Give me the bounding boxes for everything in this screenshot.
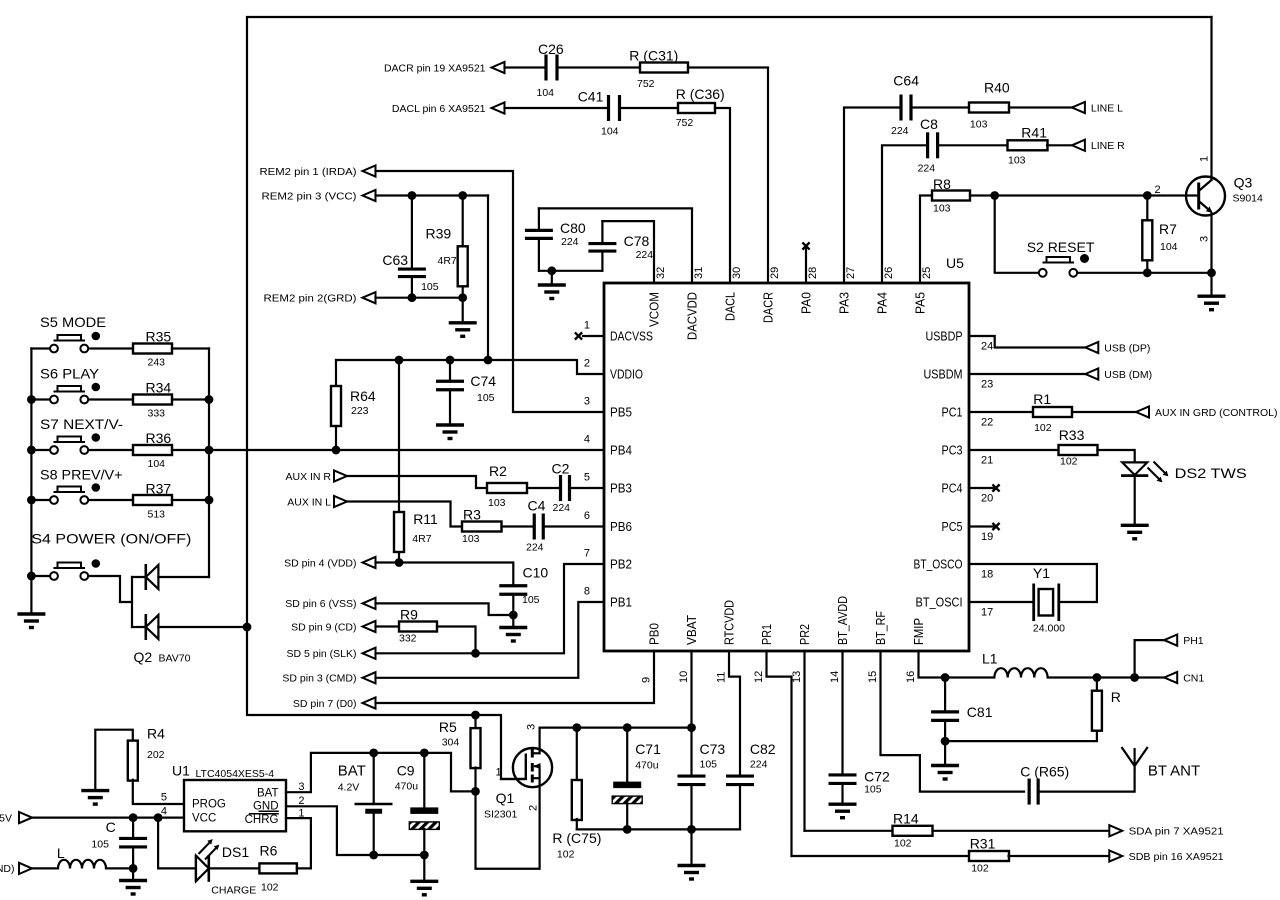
wire: C10 bottom lead [512, 595, 514, 628]
svg-text:S4 POWER (ON/OFF): S4 POWER (ON/OFF) [31, 531, 191, 547]
wire: C74 lower lead [449, 390, 451, 425]
wire: C81 to R bottom [945, 729, 1097, 741]
svg-text:R40: R40 [984, 80, 1010, 96]
svg-text:C26: C26 [538, 41, 564, 57]
node PH1 [1164, 635, 1204, 647]
svg-text:L1: L1 [982, 651, 998, 667]
svg-text:AUX IN R: AUX IN R [285, 471, 331, 483]
svg-text:7: 7 [584, 548, 590, 560]
svg-text:9: 9 [641, 677, 653, 683]
ground (C72) [829, 804, 857, 818]
resistor R [1092, 689, 1121, 731]
capacitor C74 [436, 373, 496, 404]
junction C80C78 gnd [547, 266, 556, 275]
svg-text:R8: R8 [933, 176, 951, 192]
wire: REM2 VCC to VDDIO rail [487, 196, 489, 361]
wire: C8 to R41 [939, 144, 1009, 146]
svg-text:105: 105 [864, 784, 882, 796]
svg-text:104: 104 [601, 126, 619, 138]
capacitor C2 [552, 461, 571, 515]
svg-text:Q3: Q3 [1234, 175, 1253, 191]
resistor R14 [893, 810, 933, 849]
resistor R4 [128, 726, 165, 781]
wire: R39 bottom lead [462, 286, 464, 323]
junction bus/R37 [205, 496, 214, 505]
node AUX IN L [287, 496, 347, 508]
svg-text:PA0: PA0 [799, 292, 814, 314]
node USB (DM) [1085, 368, 1152, 380]
wire: R11 top lead [398, 360, 400, 512]
svg-text:2: 2 [584, 358, 590, 370]
svg-text:C9: C9 [397, 763, 415, 779]
svg-text:105: 105 [91, 839, 109, 851]
resistor R5 [439, 719, 481, 768]
svg-text:CHRG: CHRG [245, 814, 279, 826]
wire: Q3 collector riser [1210, 17, 1212, 176]
svg-text:R6: R6 [260, 843, 278, 859]
svg-text:DS1: DS1 [222, 844, 249, 860]
svg-text:1: 1 [584, 320, 590, 332]
wire: C81 bottom lead [944, 720, 946, 765]
svg-text:S8 PREV/V+: S8 PREV/V+ [40, 467, 123, 483]
svg-text:243: 243 [148, 357, 166, 369]
svg-text:C10: C10 [523, 565, 549, 581]
svg-text:103: 103 [488, 497, 506, 509]
wire: PR1 jog down [767, 651, 792, 856]
wire: R(C36) to pin30 DACL [715, 108, 730, 283]
wire: R3 to C4 [502, 525, 533, 527]
svg-text:SD 5 pin (SLK): SD 5 pin (SLK) [286, 648, 356, 660]
svg-text:R2: R2 [489, 463, 507, 479]
svg-text:S7 NEXT/V-: S7 NEXT/V- [40, 416, 123, 432]
wire: DACVSS stub [583, 335, 604, 337]
wire: R4 to PROG [133, 780, 184, 804]
antenna BT ANT [1122, 747, 1201, 780]
no-connect PC4 [992, 484, 999, 491]
svg-text:PC5: PC5 [942, 519, 963, 534]
svg-text:LINE L: LINE L [1091, 102, 1123, 114]
no-connect PC5 [992, 523, 999, 530]
svg-text:PB2: PB2 [610, 557, 632, 572]
wire: R41 to LINE R arrow [1047, 144, 1072, 146]
junction FM/PH1 [1130, 673, 1139, 682]
switch S8 [40, 467, 123, 504]
junction C10/VSS [509, 611, 518, 620]
junction frame/R5 [471, 711, 480, 720]
ground (C74) [436, 425, 464, 439]
wire: L to C junction [106, 867, 133, 869]
svg-text:C41: C41 [578, 89, 604, 105]
wire: S5 to resistor [88, 347, 133, 349]
svg-text:BAV70: BAV70 [159, 653, 191, 665]
resistor R36 [133, 430, 172, 470]
switch S2 RESET [1027, 239, 1095, 277]
wire: S7 to resistor [88, 449, 133, 451]
svg-text:4R7: 4R7 [412, 533, 431, 545]
resistor R (C75) [552, 780, 601, 861]
svg-text:R11: R11 [413, 511, 438, 527]
svg-text:Y1: Y1 [1033, 565, 1050, 581]
wire: VBAT drop [690, 651, 692, 776]
svg-text:SD pin 4 (VDD): SD pin 4 (VDD) [284, 557, 356, 569]
svg-text:752: 752 [676, 117, 694, 129]
wire: RTCVDD jog to C82 [729, 651, 740, 776]
svg-text:15: 15 [867, 671, 879, 683]
svg-text:R64: R64 [350, 388, 376, 404]
svg-text:PB4: PB4 [610, 443, 632, 458]
resistor R33 [1059, 427, 1098, 468]
svg-text:BT ANT: BT ANT [1148, 763, 1200, 780]
wire: REM2 GRD line [376, 297, 463, 299]
junction bus/R36 [205, 446, 214, 455]
wire: system power rail [540, 726, 692, 728]
wire: C41 to R(C36) [620, 107, 678, 109]
svg-text:224: 224 [918, 163, 936, 175]
resistor R8 [932, 176, 970, 215]
node DACR output [384, 62, 505, 74]
IC U5 body [604, 255, 969, 651]
wire: PC4 stub [969, 487, 995, 489]
svg-text:LTC4054XES5-4: LTC4054XES5-4 [196, 768, 275, 780]
svg-text:C82: C82 [750, 741, 776, 757]
svg-text:PR2: PR2 [797, 624, 812, 645]
svg-text:105: 105 [477, 392, 495, 404]
wire: R1 to arrow [1072, 411, 1136, 413]
wire: DACR arrow to C26 [505, 66, 547, 68]
wire: USBDP net [969, 336, 1085, 348]
svg-text:3: 3 [1199, 236, 1211, 242]
wire: R6 to CHRG pin1 [286, 818, 311, 868]
capacitor C9 [395, 763, 440, 830]
svg-text:C63: C63 [382, 252, 408, 268]
svg-text:333: 333 [148, 408, 166, 420]
svg-text:SDB pin 16 XA9521: SDB pin 16 XA9521 [1129, 851, 1224, 863]
svg-text:AUX IN L: AUX IN L [287, 496, 331, 508]
svg-text:R41: R41 [1021, 124, 1047, 140]
junction REM2VCC/R39 [458, 191, 467, 200]
wire: C78 lower lead [601, 251, 603, 271]
ground (C81) [931, 766, 959, 780]
svg-text:C71: C71 [635, 741, 661, 757]
wire: R7 top lead [1146, 196, 1148, 221]
svg-text:1: 1 [496, 767, 502, 779]
ground (C9) [410, 881, 438, 895]
svg-text:4: 4 [584, 434, 590, 446]
wire: DS1 to R6 [209, 867, 260, 869]
wire: C64 to R40 [912, 106, 969, 108]
wire: R9 to SLK [437, 627, 476, 654]
node SD 5 pin (SLK) [286, 648, 375, 660]
wire: C26 to R(C31) [557, 66, 640, 68]
junction REM2GRD/C63 [408, 293, 417, 302]
svg-text:21: 21 [981, 455, 993, 467]
svg-text:SD pin 9 (CD): SD pin 9 (CD) [291, 621, 356, 633]
junction L/C [129, 864, 138, 873]
svg-text:202: 202 [147, 749, 165, 761]
wire: SD VSS line [376, 603, 514, 615]
wire: R2 to C2 [527, 487, 559, 489]
wire: R(C75) bottom lead [576, 819, 578, 829]
junction gndrail/C71 [623, 825, 632, 834]
transistor Q1 [484, 724, 552, 821]
svg-text:VBAT: VBAT [684, 615, 699, 645]
wire: PA3 to LINE L [844, 108, 900, 284]
svg-text:R3: R3 [463, 507, 481, 523]
svg-text:S2 RESET: S2 RESET [1027, 239, 1095, 255]
no-connect PA0 [802, 242, 809, 249]
svg-text:C78: C78 [624, 233, 650, 249]
wire: C72 bottom lead [841, 784, 843, 805]
junction bus/R34 [205, 395, 214, 404]
svg-text:13: 13 [791, 671, 803, 683]
wire: R40 to LINE L arrow [1009, 106, 1072, 108]
resistor R7 [1142, 220, 1177, 260]
capacitor C [91, 819, 147, 851]
resistor R1 [1033, 391, 1072, 434]
wire: S8 to resistor [88, 499, 133, 501]
svg-text:102: 102 [894, 837, 912, 849]
svg-text:224: 224 [553, 502, 571, 514]
wire: gnd rail bottom [577, 828, 740, 830]
wire: USBDM net [969, 373, 1085, 375]
capacitor C81 [931, 704, 993, 720]
junction gndrail/C9 [420, 851, 429, 860]
svg-text:BT_OSCI: BT_OSCI [916, 595, 963, 610]
ground (C/L) [119, 881, 147, 895]
switch S7 [40, 416, 123, 454]
wire: C63 leads [411, 196, 413, 270]
svg-text:BT_RF: BT_RF [873, 611, 888, 645]
ground (REM2 GRD) [449, 323, 477, 337]
node USB (DP) [1085, 342, 1150, 354]
no-connect DACVSS [575, 332, 582, 339]
switch S4 [31, 531, 191, 580]
wire: FMIP drop [919, 651, 995, 678]
svg-text:105: 105 [522, 594, 540, 606]
svg-text:22: 22 [981, 417, 993, 429]
svg-text:103: 103 [1008, 155, 1026, 167]
svg-text:3: 3 [584, 396, 590, 408]
battery BAT [338, 763, 393, 812]
wire: R8 to Q3 base [970, 194, 1199, 196]
svg-text:C64: C64 [893, 72, 919, 88]
node LINE L [1072, 102, 1123, 114]
wire: right resistor bus [208, 349, 210, 578]
resistor R40 [969, 80, 1010, 131]
svg-text:30: 30 [731, 267, 743, 279]
resistor R37 [133, 481, 172, 521]
switch S5 [40, 314, 106, 352]
node 5V input [0, 812, 32, 824]
svg-text:223: 223 [351, 405, 369, 417]
svg-text:SD pin 6 (VSS): SD pin 6 (VSS) [285, 598, 356, 610]
diode Q2a [146, 564, 159, 590]
svg-text:26: 26 [883, 267, 895, 279]
node SD pin 3 (CMD) [282, 672, 375, 684]
wire: R(C31) to pin29 DACR [688, 68, 768, 284]
capacitor C64 [891, 72, 919, 137]
junction FM/R [1093, 673, 1102, 682]
svg-text:4R7: 4R7 [438, 255, 457, 267]
junction rail/C9 [420, 749, 429, 758]
wire: BAT top lead [373, 753, 375, 804]
svg-text:BT_AVDD: BT_AVDD [835, 596, 850, 645]
node REM2 pin 2 (GRD) [264, 292, 376, 304]
wire: R35 out [172, 347, 209, 349]
wire: R36 out / PB4 line [172, 449, 604, 451]
svg-text:2: 2 [528, 805, 540, 811]
svg-text:R36: R36 [146, 430, 172, 446]
svg-text:C80: C80 [560, 220, 586, 236]
wire: C80/C78 ground rail [539, 270, 603, 272]
svg-text:S9014: S9014 [1233, 193, 1264, 205]
wire: C80 leads [538, 208, 540, 230]
svg-text:R1: R1 [1033, 391, 1051, 407]
capacitor C71 [612, 741, 661, 804]
svg-text:PA5: PA5 [913, 292, 928, 314]
svg-text:DACVSS: DACVSS [610, 329, 653, 344]
resistor R39 [426, 226, 468, 287]
svg-text:29: 29 [769, 267, 781, 279]
svg-text:R (C36): R (C36) [676, 86, 725, 102]
junction gndrail/BAT [369, 851, 378, 860]
resistor R11 [394, 511, 438, 552]
junction FM/C81 [941, 673, 950, 682]
wire: C bottom lead [132, 847, 134, 881]
svg-text:Q2: Q2 [134, 649, 153, 665]
svg-text:AUX IN GRD (CONTROL): AUX IN GRD (CONTROL) [1155, 407, 1278, 419]
wire: AUX IN R to R2 [347, 476, 487, 488]
capacitor C4 [526, 498, 546, 554]
svg-text:470u: 470u [395, 781, 419, 793]
wire: S8 contacts [31, 499, 50, 501]
wire: SD SLK line to PB2 [376, 564, 605, 653]
svg-text:REM2 pin 1 (IRDA): REM2 pin 1 (IRDA) [260, 166, 357, 178]
wire: Q2 d2 anode to frame [158, 626, 247, 628]
wire: C71 bottom lead [626, 803, 628, 829]
wire: REM2 IRDA to PB5 [376, 171, 605, 412]
svg-text:C73: C73 [700, 741, 726, 757]
ground (Q3) [1198, 296, 1226, 310]
svg-text:DACL pin 6 XA9521: DACL pin 6 XA9521 [392, 103, 486, 115]
ground (C10) [499, 628, 527, 642]
svg-text:R35: R35 [146, 329, 172, 345]
wire: C80 to pin31 DACVDD [539, 208, 692, 283]
svg-text:102: 102 [971, 863, 989, 875]
svg-text:PA4: PA4 [875, 292, 890, 314]
svg-text:PB5: PB5 [610, 405, 632, 420]
junction rail/VBAT [687, 723, 696, 732]
wire: PA5 to R8 [920, 196, 932, 284]
svg-text:C4: C4 [528, 498, 546, 514]
junction S2/R7 [1143, 268, 1152, 277]
resistor R (C36) [676, 86, 725, 129]
svg-text:BAT: BAT [338, 763, 366, 780]
node AUX IN GRD [1136, 406, 1278, 418]
svg-text:DACR pin 19 XA9521: DACR pin 19 XA9521 [384, 62, 486, 74]
label Q2 [134, 649, 191, 665]
wire: C(R65) to antenna [1040, 770, 1135, 792]
svg-text:105: 105 [700, 759, 718, 771]
wire: DACL arrow to C41 [505, 107, 607, 109]
svg-text:5: 5 [584, 472, 590, 484]
junction gndrail/C73 [687, 825, 696, 834]
svg-text:103: 103 [933, 203, 951, 215]
wire: C71 top lead [626, 728, 628, 782]
svg-text:224: 224 [636, 249, 654, 261]
capacitor C78 [588, 233, 653, 261]
ground (DS2) [1121, 525, 1149, 539]
svg-text:28: 28 [807, 267, 819, 279]
wire: gnd stub [551, 271, 553, 285]
svg-text:31: 31 [693, 267, 705, 279]
wire: R7 bottom lead [1146, 260, 1148, 273]
wire: R31 to SDB arrow [1009, 855, 1110, 857]
node AUX IN R [285, 470, 347, 482]
svg-text:4: 4 [161, 806, 167, 818]
svg-text:Q1: Q1 [496, 790, 515, 806]
wire: REM2 VCC line [376, 194, 489, 196]
wire: power net top/left frame [247, 17, 1212, 779]
junction R5/BATrail [471, 787, 480, 796]
node REM2 pin 1 (IRDA) [260, 165, 376, 177]
svg-text:SD pin 3 (CMD): SD pin 3 (CMD) [282, 673, 356, 685]
svg-text:C (R65): C (R65) [1020, 764, 1069, 780]
svg-text:24.000: 24.000 [1033, 623, 1065, 635]
svg-text:513: 513 [148, 509, 166, 521]
svg-text:104: 104 [1160, 241, 1178, 253]
node LINE R [1072, 140, 1125, 152]
capacitor C82 [726, 741, 776, 785]
svg-text:U1: U1 [172, 763, 190, 779]
svg-text:R9: R9 [400, 607, 418, 623]
resistor R3 [462, 507, 502, 546]
svg-text:C: C [106, 819, 116, 835]
wire: VDDIO rail [336, 360, 604, 374]
resistor R9 [399, 607, 437, 645]
svg-text:104: 104 [148, 458, 166, 470]
svg-text:PB0: PB0 [647, 623, 662, 645]
wire: GND input to L [32, 867, 58, 869]
junction frame/Q2 [243, 623, 252, 632]
svg-text:470u: 470u [635, 760, 659, 772]
wire: S4 to diode cathodes [88, 576, 132, 602]
wire: Q2 d2 cathode stub [132, 626, 146, 628]
wire: R(C75) top lead [576, 728, 578, 780]
svg-text:20: 20 [981, 493, 993, 505]
svg-text:PA3: PA3 [837, 292, 852, 314]
svg-text:USB (DP): USB (DP) [1104, 342, 1150, 354]
junction C81/Rbot [941, 737, 950, 746]
svg-text:PC1: PC1 [942, 405, 963, 420]
wire: SD CD to R9 [376, 625, 400, 627]
svg-text:PH1: PH1 [1183, 635, 1204, 647]
wire: C2 to PB3 [571, 487, 604, 489]
svg-text:11: 11 [716, 672, 728, 683]
node DACL output [392, 102, 505, 114]
svg-text:23: 23 [981, 379, 993, 391]
wire: GND pin2 to gnd rail [286, 806, 424, 855]
svg-text:12: 12 [753, 671, 765, 683]
wire: C top lead [132, 818, 134, 839]
wire: PH1 riser [1135, 640, 1165, 677]
wire: S5 contacts [31, 347, 50, 349]
wire: PC1 to R1 [969, 411, 1033, 413]
capacitor C41 [578, 89, 620, 138]
svg-text:PC3: PC3 [942, 443, 963, 458]
svg-text:25: 25 [921, 267, 933, 279]
wire: R5 bottom lead [474, 768, 476, 792]
